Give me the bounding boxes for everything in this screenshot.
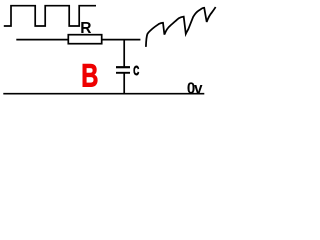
svg-text:0v: 0v <box>187 81 203 98</box>
svg-text:B: B <box>81 58 98 94</box>
svg-text:R: R <box>80 20 92 37</box>
svg-text:C: C <box>133 63 139 78</box>
